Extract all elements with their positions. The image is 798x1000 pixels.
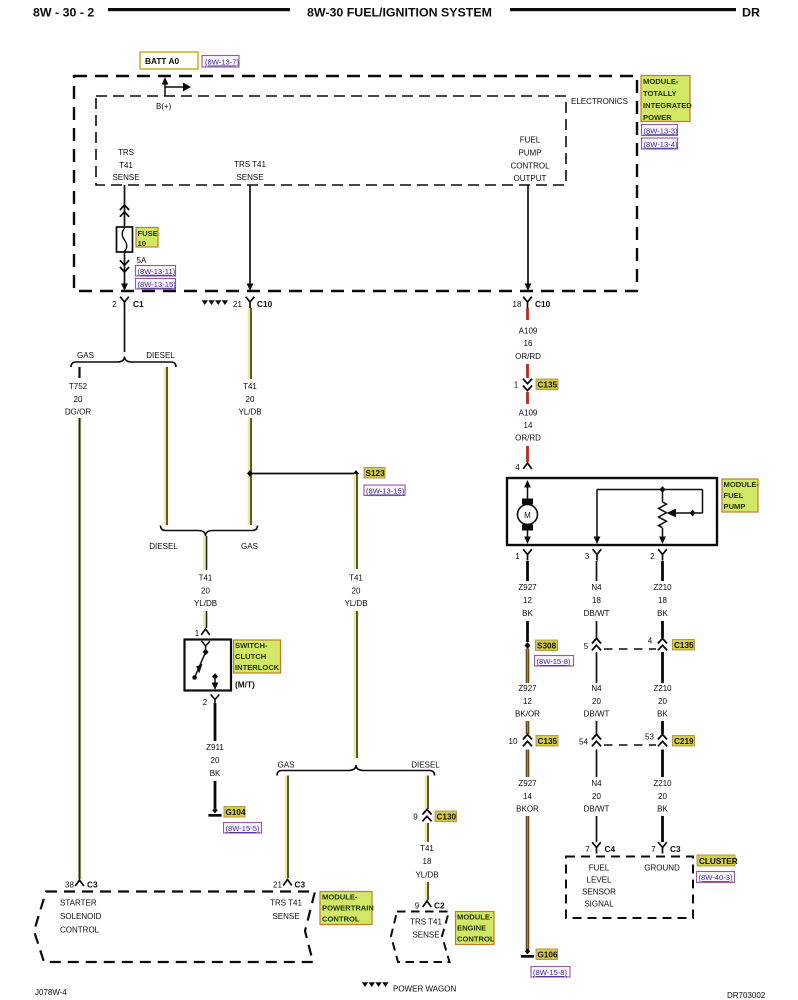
- svg-text:12: 12: [523, 596, 532, 605]
- svg-text:YL/DB: YL/DB: [344, 599, 367, 608]
- svg-text:8W - 30 - 2: 8W - 30 - 2: [33, 6, 94, 20]
- svg-text:INTERLOCK: INTERLOCK: [235, 663, 280, 672]
- svg-text:YL/DB: YL/DB: [194, 599, 217, 608]
- svg-text:20: 20: [658, 697, 667, 706]
- svg-text:8W-30 FUEL/IGNITION SYSTEM: 8W-30 FUEL/IGNITION SYSTEM: [307, 6, 492, 20]
- svg-text:SENSE: SENSE: [412, 931, 439, 940]
- svg-text:INTEGRATED: INTEGRATED: [643, 101, 692, 110]
- svg-text:B(+): B(+): [156, 102, 172, 111]
- svg-text:T41: T41: [349, 574, 363, 583]
- svg-text:BK: BK: [657, 805, 668, 814]
- svg-text:TOTALLY: TOTALLY: [643, 89, 677, 98]
- svg-text:FUEL: FUEL: [520, 136, 541, 145]
- svg-text:53: 53: [645, 733, 654, 742]
- svg-text:C1: C1: [133, 299, 144, 309]
- svg-text:18: 18: [592, 596, 601, 605]
- svg-text:7: 7: [585, 845, 590, 854]
- svg-text:MODULE-: MODULE-: [322, 893, 358, 902]
- svg-text:TRS T41: TRS T41: [270, 899, 302, 908]
- svg-text:BK: BK: [657, 710, 668, 719]
- svg-text:54: 54: [579, 738, 588, 747]
- svg-text:T41: T41: [243, 382, 257, 391]
- svg-text:1: 1: [515, 552, 520, 561]
- svg-text:POWER: POWER: [643, 113, 672, 122]
- svg-text:Z210: Z210: [653, 684, 672, 693]
- svg-text:7: 7: [651, 845, 656, 854]
- svg-text:SWITCH-: SWITCH-: [235, 641, 268, 650]
- svg-text:GROUND: GROUND: [644, 864, 680, 873]
- svg-text:GAS: GAS: [77, 351, 94, 360]
- svg-text:C219: C219: [674, 737, 694, 746]
- svg-text:SENSOR: SENSOR: [582, 888, 616, 897]
- svg-text:S123: S123: [366, 469, 386, 478]
- svg-text:16: 16: [524, 339, 533, 348]
- svg-text:C135: C135: [538, 737, 558, 746]
- svg-text:18: 18: [658, 596, 667, 605]
- svg-text:FUSE: FUSE: [138, 229, 158, 238]
- svg-text:14: 14: [523, 792, 532, 801]
- svg-text:Z210: Z210: [653, 779, 672, 788]
- svg-text:DB/WT: DB/WT: [584, 805, 610, 814]
- svg-text:TRS: TRS: [118, 148, 134, 157]
- svg-text:BKOR: BKOR: [516, 805, 539, 814]
- svg-text:38: 38: [65, 881, 74, 890]
- svg-text:(8W-13-15): (8W-13-15): [138, 280, 177, 289]
- svg-text:GAS: GAS: [241, 542, 258, 551]
- svg-text:(M/T): (M/T): [235, 680, 255, 690]
- svg-text:DG/OR: DG/OR: [65, 408, 91, 417]
- svg-text:TRS T41: TRS T41: [410, 918, 442, 927]
- svg-text:YL/DB: YL/DB: [415, 871, 438, 880]
- svg-text:20: 20: [592, 697, 601, 706]
- svg-text:POWERTRAIN: POWERTRAIN: [322, 904, 374, 913]
- svg-text:(8W-13-11): (8W-13-11): [138, 267, 176, 276]
- svg-text:SIGNAL: SIGNAL: [584, 900, 614, 909]
- svg-text:CONTROL: CONTROL: [322, 915, 360, 924]
- svg-text:(8W-13-4): (8W-13-4): [644, 140, 679, 149]
- svg-text:MODULE-: MODULE-: [643, 77, 679, 86]
- svg-text:1: 1: [195, 629, 200, 638]
- svg-text:14: 14: [524, 421, 533, 430]
- svg-text:FUEL: FUEL: [589, 864, 610, 873]
- svg-text:(8W-15-8): (8W-15-8): [537, 657, 572, 666]
- svg-text:Z210: Z210: [653, 583, 672, 592]
- svg-text:9: 9: [415, 902, 420, 911]
- svg-text:20: 20: [211, 756, 220, 765]
- svg-text:TRS T41: TRS T41: [234, 160, 266, 169]
- svg-text:OR/RD: OR/RD: [515, 352, 541, 361]
- svg-text:DIESEL: DIESEL: [149, 542, 178, 551]
- svg-text:(8W-13-15): (8W-13-15): [366, 487, 405, 496]
- svg-text:9: 9: [413, 813, 418, 822]
- svg-text:A109: A109: [519, 409, 538, 418]
- svg-text:1: 1: [514, 381, 519, 390]
- svg-text:(8W-13-7): (8W-13-7): [205, 58, 240, 67]
- svg-text:3: 3: [585, 552, 590, 561]
- svg-text:S308: S308: [537, 642, 557, 651]
- svg-text:T41: T41: [199, 574, 213, 583]
- svg-text:20: 20: [201, 587, 210, 596]
- svg-text:4: 4: [515, 463, 520, 472]
- svg-text:C10: C10: [257, 299, 273, 309]
- svg-text:18: 18: [513, 300, 522, 309]
- svg-text:N4: N4: [591, 779, 602, 788]
- svg-text:YL/DB: YL/DB: [238, 408, 261, 417]
- svg-text:10: 10: [509, 737, 518, 746]
- svg-text:Z927: Z927: [518, 684, 537, 693]
- svg-text:(8W-15-5): (8W-15-5): [226, 824, 261, 833]
- svg-text:2: 2: [203, 698, 208, 707]
- svg-text:20: 20: [592, 792, 601, 801]
- svg-text:12: 12: [523, 697, 532, 706]
- svg-text:20: 20: [352, 587, 361, 596]
- svg-text:CONTROL: CONTROL: [510, 162, 550, 171]
- svg-text:BK/OR: BK/OR: [515, 710, 540, 719]
- svg-text:T752: T752: [69, 382, 88, 391]
- svg-text:Z927: Z927: [518, 583, 537, 592]
- svg-text:MODULE-: MODULE-: [724, 480, 760, 489]
- svg-text:CLUSTER: CLUSTER: [699, 857, 738, 866]
- svg-text:PUMP: PUMP: [724, 502, 746, 511]
- svg-text:CONTROL: CONTROL: [60, 926, 100, 935]
- svg-text:20: 20: [246, 395, 255, 404]
- svg-text:C130: C130: [437, 813, 457, 822]
- svg-text:C135: C135: [674, 641, 694, 650]
- svg-text:DR: DR: [742, 6, 760, 20]
- svg-text:C4: C4: [605, 844, 616, 854]
- svg-text:A109: A109: [519, 327, 538, 336]
- svg-text:T41: T41: [420, 844, 434, 853]
- svg-text:4: 4: [648, 637, 653, 646]
- svg-text:SENSE: SENSE: [236, 173, 263, 182]
- svg-text:CLUTCH: CLUTCH: [235, 652, 266, 661]
- svg-text:C10: C10: [535, 299, 551, 309]
- svg-text:(8W-13-3): (8W-13-3): [644, 126, 679, 135]
- svg-text:OUTPUT: OUTPUT: [514, 174, 547, 183]
- svg-text:T41: T41: [119, 161, 133, 170]
- svg-text:(8W-40-3): (8W-40-3): [699, 873, 734, 882]
- svg-text:2: 2: [650, 552, 655, 561]
- svg-text:5: 5: [584, 642, 589, 651]
- svg-text:5A: 5A: [137, 256, 147, 265]
- svg-text:BK: BK: [657, 609, 668, 618]
- svg-text:CONTROL: CONTROL: [457, 935, 495, 944]
- svg-text:Z911: Z911: [206, 743, 224, 752]
- svg-text:SOLENOID: SOLENOID: [60, 912, 102, 921]
- svg-text:LEVEL: LEVEL: [587, 876, 612, 885]
- svg-text:MODULE-: MODULE-: [457, 913, 493, 922]
- svg-text:21: 21: [273, 881, 282, 890]
- svg-text:C3: C3: [87, 880, 98, 890]
- svg-text:M: M: [524, 511, 531, 520]
- svg-text:POWER WAGON: POWER WAGON: [393, 985, 456, 994]
- svg-text:G106: G106: [538, 951, 558, 960]
- svg-text:N4: N4: [591, 583, 602, 592]
- svg-text:20: 20: [658, 792, 667, 801]
- svg-text:DR703002: DR703002: [727, 991, 766, 1000]
- svg-text:10: 10: [138, 239, 146, 248]
- svg-text:21: 21: [233, 300, 242, 309]
- svg-text:C2: C2: [434, 901, 445, 911]
- svg-text:20: 20: [74, 395, 83, 404]
- svg-text:C3: C3: [670, 844, 681, 854]
- svg-text:DB/WT: DB/WT: [584, 710, 610, 719]
- svg-text:C135: C135: [538, 381, 558, 390]
- svg-text:(8W-15-8): (8W-15-8): [533, 968, 568, 977]
- svg-text:DIESEL: DIESEL: [411, 761, 440, 770]
- svg-text:SENSE: SENSE: [272, 912, 299, 921]
- svg-text:STARTER: STARTER: [60, 899, 97, 908]
- svg-text:BK: BK: [522, 609, 533, 618]
- svg-text:C3: C3: [295, 880, 306, 890]
- svg-text:GAS: GAS: [278, 761, 295, 770]
- svg-text:ELECTRONICS: ELECTRONICS: [571, 97, 628, 106]
- svg-text:2: 2: [112, 300, 117, 309]
- svg-text:J078W-4: J078W-4: [35, 988, 67, 997]
- svg-text:DIESEL: DIESEL: [146, 351, 175, 360]
- svg-text:PUMP: PUMP: [518, 149, 541, 158]
- svg-text:OR/RD: OR/RD: [515, 434, 541, 443]
- svg-text:DB/WT: DB/WT: [584, 609, 610, 618]
- svg-text:BK: BK: [210, 769, 221, 778]
- svg-text:FUEL: FUEL: [724, 491, 744, 500]
- svg-text:N4: N4: [591, 684, 602, 693]
- svg-text:G104: G104: [226, 808, 246, 817]
- svg-text:BATT A0: BATT A0: [145, 56, 179, 66]
- svg-text:Z927: Z927: [518, 779, 537, 788]
- svg-text:ENGINE: ENGINE: [457, 924, 486, 933]
- svg-text:SENSE: SENSE: [112, 173, 139, 182]
- svg-text:18: 18: [423, 857, 432, 866]
